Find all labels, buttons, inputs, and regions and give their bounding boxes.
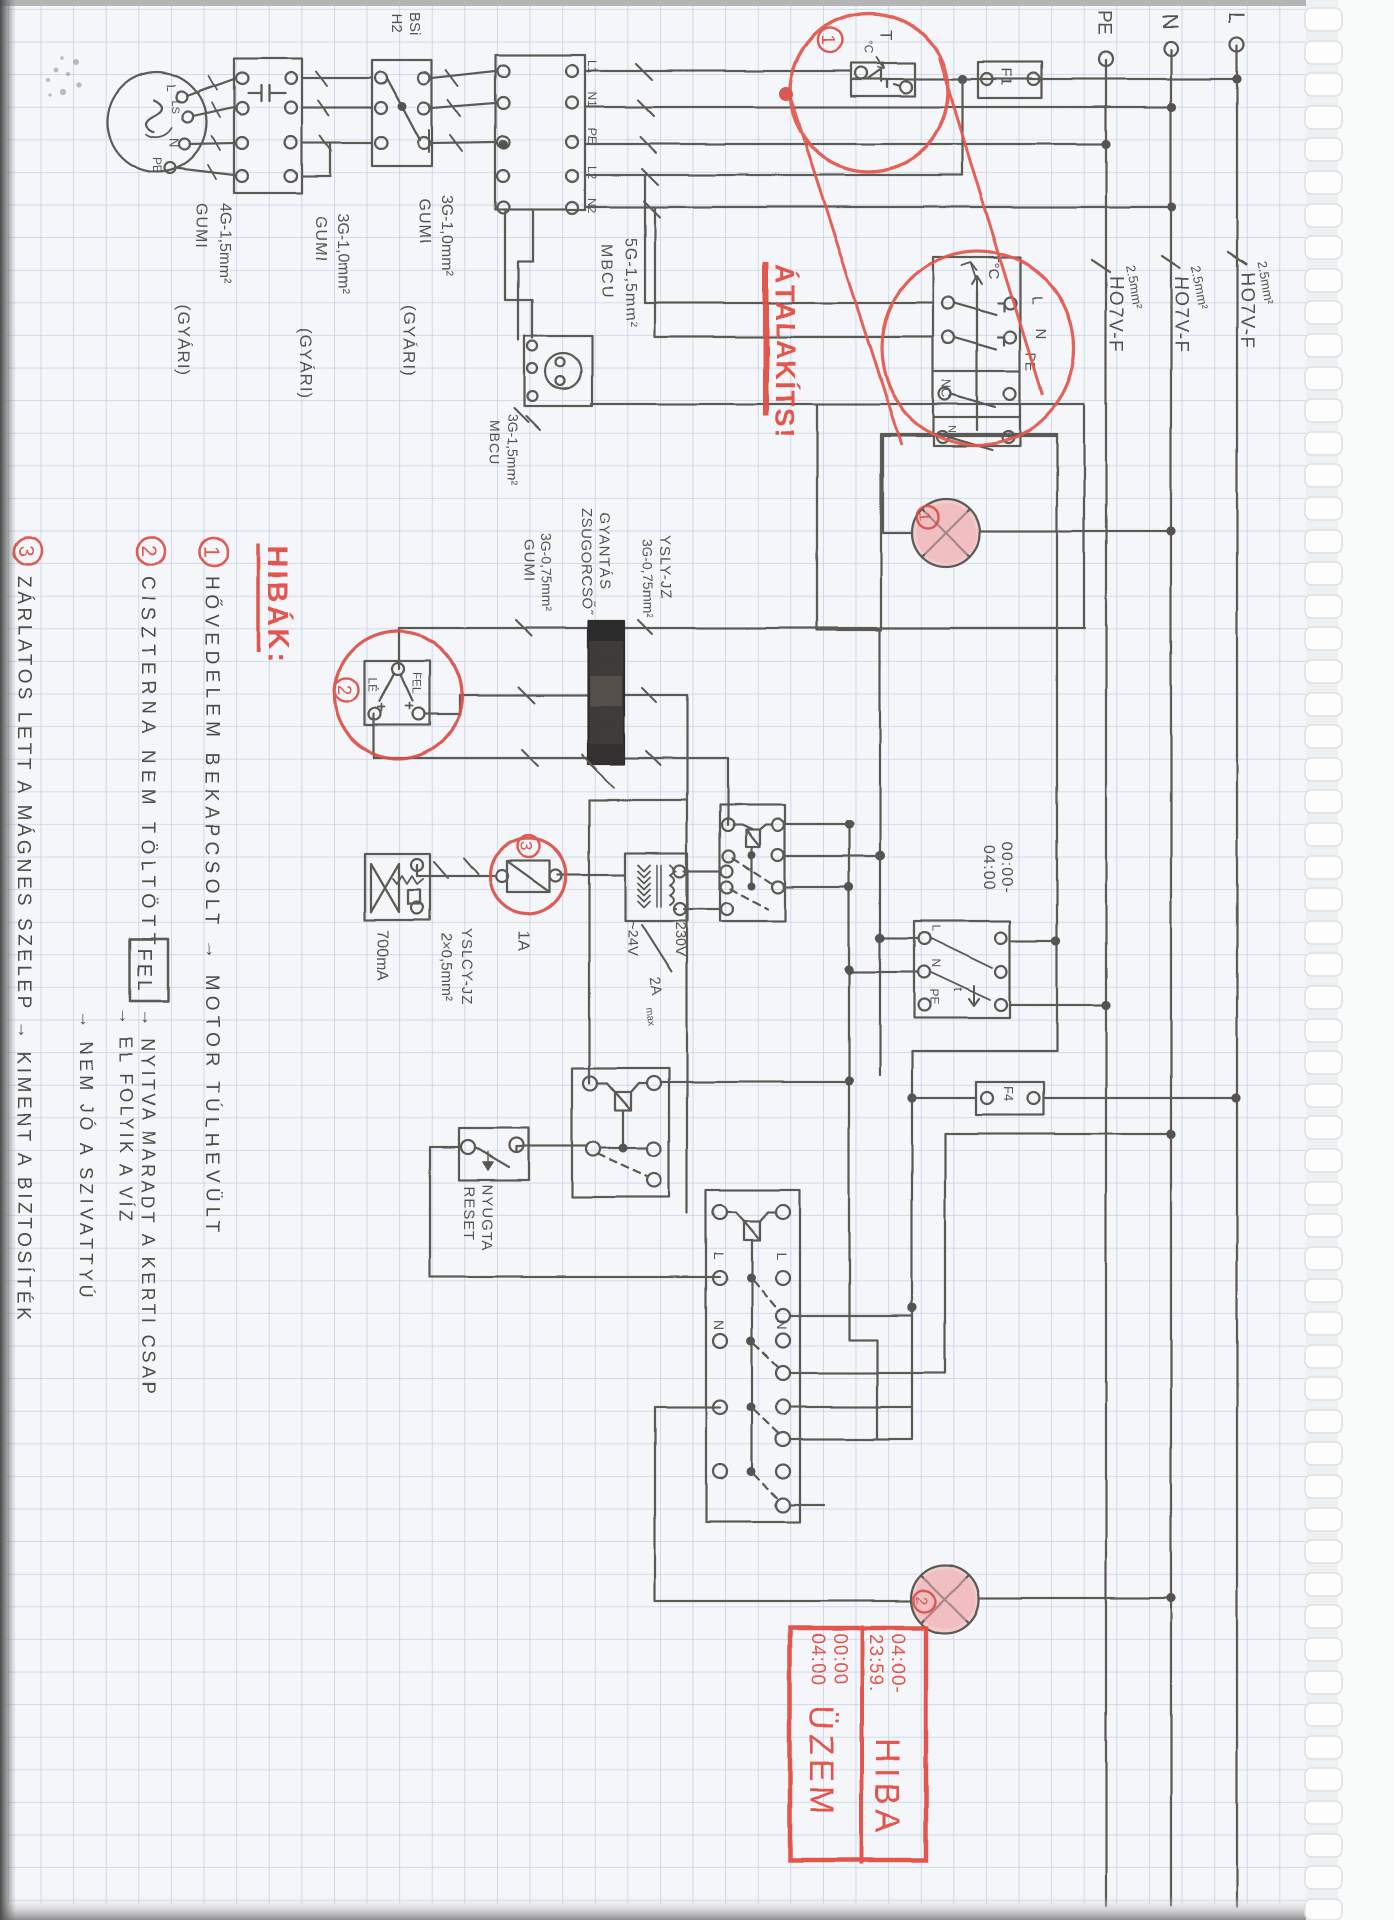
svg-text:F4: F4 — [1001, 1086, 1016, 1101]
junction dot B0 — [844, 819, 853, 828]
label 230V — [624, 921, 689, 1027]
paper edge: scan bottom (landscape right) — [0, 1896, 1338, 1920]
wire L feed down left — [851, 78, 1238, 80]
junction dot at F1 branch — [957, 74, 966, 83]
cable label 5G-1.5mm2 MBCU — [598, 238, 639, 328]
label 3G-1.0mm2 GUMI (GYARI) a — [296, 213, 351, 399]
wire transformer to F3 — [558, 874, 625, 876]
wire L2 branch to contactor — [645, 175, 933, 303]
wire K2 bottom-left to LE riser — [727, 758, 729, 825]
svg-text:3G-1,0mm²: 3G-1,0mm² — [438, 195, 455, 277]
junction dot C1 — [907, 1093, 916, 1102]
svg-text:LÉ: LÉ — [366, 678, 381, 693]
svg-text:4G-1,5mm²: 4G-1,5mm² — [216, 203, 233, 285]
wire K2 to transformer b — [684, 908, 721, 910]
red magnifier circle 1 — [790, 13, 948, 171]
wire loop top — [1083, 404, 1085, 628]
svg-text:HIBÁK:: HIBÁK: — [261, 546, 295, 666]
cable label 3G-0.75mm2 GUMI — [521, 533, 555, 612]
wire LE contact right — [373, 714, 375, 758]
svg-text:F1: F1 — [998, 68, 1015, 86]
wire rail C — [911, 1051, 913, 1438]
svg-text:ZSUGORCSŐ˝: ZSUGORCSŐ˝ — [578, 508, 595, 615]
wire timer L up — [1010, 940, 1056, 942]
svg-text:PE: PE — [927, 989, 941, 1005]
svg-text:N: N — [774, 1320, 790, 1330]
junction dot K2r — [844, 882, 853, 891]
svg-text:1: 1 — [818, 35, 838, 45]
svg-text:NYUGTA: NYUGTA — [478, 1184, 495, 1251]
junction dot F4 L — [1231, 1093, 1240, 1102]
label T degC for S1 — [862, 30, 896, 68]
shrink tube (gyantas zsugorcso) — [588, 621, 624, 764]
paper edge: scan left (landscape bottom) — [0, 0, 16, 1920]
svg-text:N: N — [1158, 14, 1183, 30]
svg-text:MBCU: MBCU — [487, 420, 503, 465]
cable slashes F2-F3 — [434, 858, 478, 878]
svg-text:3: 3 — [516, 841, 535, 850]
svg-text:GUMI: GUMI — [192, 203, 209, 249]
red ellipse around contactor — [882, 251, 1074, 445]
svg-text:°C: °C — [862, 40, 876, 54]
svg-text:→ NEM JÓ A SZIVATTYÚ: → NEM JÓ A SZIVATTYÚ — [76, 1010, 97, 1301]
wire from socket to loop — [591, 403, 1084, 405]
svg-text:T: T — [877, 30, 896, 40]
terminal strip relay R2 — [706, 1190, 800, 1522]
wire timer L down — [880, 937, 918, 939]
cable label HO7V-F 2.5mm2 on N — [1162, 256, 1211, 354]
svg-text:RESET: RESET — [460, 1186, 477, 1241]
wire FEL rail — [460, 694, 687, 696]
svg-text:L: L — [774, 1252, 790, 1260]
svg-text:2: 2 — [334, 685, 354, 695]
wire lamp2 to N — [979, 1597, 1171, 1599]
wire lamp1 bottom lead — [883, 436, 912, 533]
svg-text:HO7V-F: HO7V-F — [1170, 276, 1191, 354]
svg-text:BSi: BSi — [406, 12, 423, 35]
contactor K1 (T degC relay) — [933, 257, 1020, 450]
red stamp box — [790, 1625, 926, 1864]
node N (neutral bus) — [1158, 14, 1183, 1906]
junction dot PE tap — [1101, 139, 1110, 148]
wire NYUGTA loop — [430, 1147, 720, 1277]
svg-text:MBCU: MBCU — [598, 244, 615, 299]
wire drop to R1 feed — [589, 799, 687, 801]
push button NYUGTA/RESET S3 — [459, 1128, 529, 1180]
svg-text:2: 2 — [912, 1596, 929, 1605]
wire rail C left drop — [912, 1050, 1056, 1052]
signal lamp H2 — [911, 1565, 979, 1633]
wire rail B — [849, 824, 877, 1438]
red list circled 2 — [137, 537, 165, 565]
wire N drop to rail D — [945, 1133, 1171, 1135]
wire PE run — [585, 143, 1106, 145]
red marker circled 3 — [516, 835, 539, 857]
signal lamp H1 — [912, 499, 980, 567]
svg-text:2×0,5mm²: 2×0,5mm² — [438, 933, 455, 1001]
label T degC for K1 — [962, 253, 1002, 280]
wire rail D — [944, 1134, 946, 1372]
svg-text:→ EL FOLYIK A VÍZ: → EL FOLYIK A VÍZ — [116, 1007, 136, 1225]
labels L N PE above K1 — [1023, 296, 1049, 371]
svg-text:04:00-: 04:00- — [887, 1634, 908, 1694]
wire K2 mid up — [784, 855, 880, 857]
svg-text:1: 1 — [916, 512, 933, 521]
svg-text:YSLCY-JZ: YSLCY-JZ — [458, 928, 475, 1005]
svg-text:(GYÁRI): (GYÁRI) — [174, 305, 193, 376]
svg-text:04:00: 04:00 — [980, 845, 997, 890]
svg-text:YSLY-JZ: YSLY-JZ — [657, 535, 674, 600]
svg-text:N: N — [1032, 328, 1049, 339]
timer clock switch U2 — [914, 921, 1010, 1018]
red beam line b — [939, 58, 1042, 395]
wire lamp1 to N — [980, 530, 1171, 532]
svg-text:1A: 1A — [514, 930, 533, 951]
svg-text:~24V: ~24V — [624, 921, 641, 956]
svg-text:PE: PE — [585, 128, 599, 144]
cable label YSLCY-JZ 2x0.5mm2 — [438, 928, 475, 1005]
svg-text:23:59.: 23:59. — [865, 1634, 886, 1693]
junction dot A1 — [875, 933, 884, 942]
svg-text:GUMI: GUMI — [521, 539, 538, 582]
svg-text:3G-1,5mm²: 3G-1,5mm² — [505, 414, 521, 485]
wire F4 to L bus — [1044, 1097, 1236, 1099]
svg-text:HO7V-F: HO7V-F — [1236, 272, 1257, 350]
label GYANTAS ZSUGORCSO — [578, 508, 613, 615]
svg-text:L: L — [1028, 296, 1045, 304]
junction dot lamp2 N — [1166, 1593, 1175, 1602]
svg-text:FEL: FEL — [410, 672, 424, 694]
wire L1 to S1 — [585, 70, 851, 72]
wire F3 to F2 — [417, 865, 496, 876]
wire top rail to R1 — [686, 695, 688, 1213]
svg-text:1: 1 — [200, 546, 223, 558]
svg-text:(GYÁRI): (GYÁRI) — [400, 305, 419, 376]
junction dot timer L tap — [1051, 936, 1060, 945]
svg-text:2A: 2A — [646, 976, 665, 997]
wire R1 top-right up — [661, 1081, 848, 1083]
svg-text:HO7V-F: HO7V-F — [1105, 276, 1126, 354]
float switch box BSi — [372, 60, 432, 166]
node PE (earth bus) — [1093, 10, 1114, 1906]
red text ATALAKITS — [766, 262, 801, 439]
wire R2 row3 up — [790, 1406, 912, 1408]
fuse F1 — [978, 62, 1042, 98]
svg-text:(GYÁRI): (GYÁRI) — [296, 328, 315, 399]
red list circled 3 — [14, 537, 42, 565]
wire LE riser — [374, 757, 728, 759]
cable slashes BSi-X2 — [446, 70, 462, 151]
svg-text:L2: L2 — [585, 166, 599, 180]
svg-text:700mA: 700mA — [374, 930, 391, 981]
wire branch to L2 — [961, 79, 963, 175]
wire rail A — [879, 630, 881, 1075]
wire N2 branch to contactor — [655, 207, 933, 337]
socket MBCU X3 — [524, 336, 592, 406]
transformer TR1 — [625, 853, 688, 921]
svg-text:2: 2 — [137, 545, 160, 557]
junction dot N drop — [1166, 1129, 1175, 1138]
cable slashes on risers — [516, 620, 538, 766]
junction dot N2 — [1167, 202, 1176, 211]
wire K1 NO to lamp frame — [883, 435, 1057, 437]
wire R2 throw2 up — [790, 1372, 945, 1374]
svg-text:L1: L1 — [585, 60, 599, 74]
svg-text:GUMI: GUMI — [416, 199, 433, 245]
node L (phase bus) — [1224, 12, 1249, 1906]
wire switch feed (FEL riser) — [399, 628, 1085, 669]
junction dot B1 — [844, 965, 853, 974]
paper edge: scan top (landscape left) — [0, 0, 1338, 6]
svg-text:5G-1,5mm²: 5G-1,5mm² — [622, 238, 639, 328]
svg-text:CISZTERNA NEM TÖLTÖTT: CISZTERNA NEM TÖLTÖTT — [137, 576, 158, 950]
wire R1 mid to NYUGTA — [517, 1146, 586, 1152]
svg-text:00:00-: 00:00- — [998, 842, 1015, 893]
wire K2 to transformer a — [684, 870, 721, 872]
svg-text:N2: N2 — [585, 198, 599, 214]
wire frame top extension — [1056, 628, 1058, 1051]
red lamp2 scribble — [912, 1569, 975, 1629]
red beam line a — [791, 100, 902, 445]
wire lamp2 feed from strip — [713, 1406, 720, 1408]
wire F4 down — [912, 1097, 976, 1099]
red heading HIBAK — [258, 544, 295, 666]
cable slashes socket — [514, 408, 540, 430]
wire K2 right up — [784, 886, 849, 888]
red list circled 1 — [200, 538, 228, 566]
junction dot L bus — [1232, 74, 1241, 83]
label 00:00-04:00 — [980, 842, 1015, 893]
cable label YSLY-JZ 3G-0.75mm2 — [640, 535, 674, 618]
cable slashes X1-BSi — [316, 71, 331, 151]
wire timer PE up — [1010, 1004, 1107, 1006]
svg-text:N: N — [929, 959, 943, 968]
svg-text:PE: PE — [150, 157, 164, 173]
svg-text:→ NYITVA MARADT A KERTI CSAP: → NYITVA MARADT A KERTI CSAP — [138, 1009, 158, 1397]
svg-text:HŐVEDELEM BEKAPCSOLT → MOTOR T: HŐVEDELEM BEKAPCSOLT → MOTOR TÚLHEVÜLT — [201, 576, 223, 1237]
relay R1 — [572, 1068, 669, 1197]
wire N1 run — [585, 106, 1172, 108]
fuse F2 700mA — [365, 854, 430, 920]
svg-text:ÜZEM: ÜZEM — [802, 1706, 840, 1818]
wire L2 run — [585, 174, 962, 176]
wires block1 to BSi switch — [302, 78, 372, 176]
svg-text:NC: NC — [939, 379, 954, 398]
svg-text:t: t — [951, 988, 966, 992]
fuse F3 1A — [496, 861, 562, 892]
junction dot timer PE — [1101, 1000, 1110, 1009]
svg-text:HIBA: HIBA — [868, 1738, 906, 1837]
svg-text:N1: N1 — [585, 92, 599, 108]
wire R1 feed — [588, 800, 590, 1083]
terminal block X2 — [495, 55, 599, 214]
red circle around FEL/LE — [334, 631, 462, 759]
boxed FEL — [130, 939, 168, 1001]
red circle around F3 — [490, 838, 566, 914]
svg-text:N: N — [711, 1320, 727, 1330]
junction dot C2 — [907, 1303, 916, 1312]
wire K2 top-left up — [784, 823, 849, 825]
svg-text:N: N — [167, 138, 182, 147]
motor M1 — [107, 72, 207, 174]
callout line to tube — [582, 755, 614, 788]
label NYUGTA RESET — [460, 1184, 495, 1251]
svg-text:L: L — [929, 925, 943, 932]
svg-text:3G-0,75mm²: 3G-0,75mm² — [539, 533, 555, 612]
wires motor to block1 — [175, 76, 234, 179]
label 3G-1.0mm2 GUMI (GYARI) b — [400, 195, 455, 376]
thermostat switch S1 — [851, 63, 915, 96]
label BSi H2 — [388, 12, 423, 35]
svg-text:00:00: 00:00 — [829, 1633, 850, 1686]
wire timer N down — [849, 971, 918, 973]
red dot on wire — [779, 88, 793, 102]
svg-text:LS: LS — [169, 100, 181, 113]
cable label HO7V-F 2.5mm2 on PE — [1092, 260, 1146, 354]
label 3G1.5mm2 MBCU — [487, 414, 521, 485]
wire FEL contact up — [425, 695, 460, 714]
svg-text:L: L — [1224, 12, 1249, 24]
wire R2 throw1 up — [790, 1315, 912, 1317]
lamp1 frame box — [881, 434, 1057, 628]
svg-text:3G-0,75mm²: 3G-0,75mm² — [640, 539, 656, 618]
red marker circled 1 — [818, 28, 842, 52]
wire R2 throw4 stub — [790, 1504, 824, 1506]
wires BSi to block X2 — [432, 71, 495, 143]
spiral binding strip (landscape top) — [1305, 0, 1394, 1920]
wire loop below lamp1 — [817, 404, 881, 630]
wire N2 run — [585, 206, 1172, 208]
svg-text:ZÁRLATOS LETT A MÁGNES SZELEP: ZÁRLATOS LETT A MÁGNES SZELEP → KIMENT A… — [13, 576, 34, 1323]
svg-text:PE: PE — [1093, 10, 1114, 35]
terminal block X1 with capacitor — [234, 58, 302, 193]
svg-text:GYANTÁS: GYANTÁS — [596, 512, 613, 590]
junction dot A2 — [875, 851, 885, 861]
red marker circled 2 — [334, 678, 358, 702]
svg-text:ÁTALAKÍTS!: ÁTALAKÍTS! — [770, 264, 801, 439]
svg-text:04:00: 04:00 — [807, 1633, 828, 1686]
red lamp1 scribble — [916, 503, 976, 563]
cable slashes 5G — [636, 64, 660, 217]
svg-text:3G-1,0mm²: 3G-1,0mm² — [334, 213, 351, 295]
svg-text:GUMI: GUMI — [312, 216, 329, 262]
relay K2 — [720, 805, 785, 921]
pencil smudge top-left of scan — [46, 56, 82, 96]
svg-text:H2: H2 — [388, 14, 405, 33]
float switch FEL/LE S2 — [365, 661, 430, 725]
wires X2 to socket — [505, 210, 533, 340]
junction dot B2 — [844, 1076, 853, 1085]
junction dot lamp1 N — [1166, 526, 1175, 535]
fuse F4 — [976, 1082, 1044, 1115]
cable label HO7V-F 2.5mm2 on L — [1228, 252, 1277, 350]
svg-text:L: L — [711, 1252, 727, 1260]
label 4G-1.5mm2 GUMI (GYARI) — [174, 203, 233, 376]
svg-text:3: 3 — [14, 545, 37, 557]
svg-text:FEL: FEL — [133, 948, 155, 994]
wire R2 throw3 up — [790, 1438, 912, 1440]
svg-text:L: L — [164, 84, 179, 91]
junction dot N1 — [1167, 102, 1176, 111]
wire lamp2 loop — [655, 1407, 911, 1601]
